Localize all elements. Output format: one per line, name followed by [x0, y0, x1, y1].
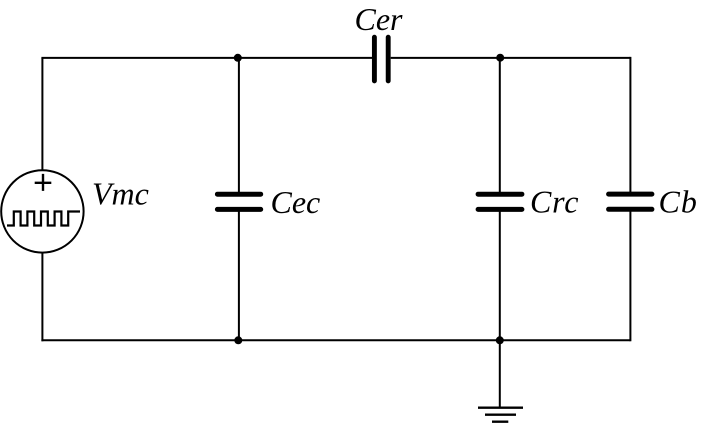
wire bottom horizontal [41, 339, 630, 341]
ground symbol [478, 407, 523, 409]
voltage source Vmc circle [1, 170, 83, 252]
wire Crc lower branch [499, 212, 501, 341]
svg-text:Cer: Cer [355, 1, 404, 37]
Vmc square wave [7, 212, 80, 226]
Vmc plus sign [35, 174, 52, 191]
wire right vertical upper (to Cb) [629, 57, 631, 192]
wire left vertical lower [41, 253, 43, 341]
svg-text:Cb: Cb [659, 184, 698, 220]
node junction dot Crc top [496, 54, 504, 62]
wire Cec lower branch [238, 212, 240, 341]
svg-text:Crc: Crc [530, 184, 579, 220]
wire Cec upper branch [238, 58, 240, 192]
node junction dot Cec bottom [234, 336, 242, 344]
capacitor Cer plates [374, 37, 388, 81]
wire Crc upper branch [499, 58, 501, 192]
wire top horizontal left segment [41, 57, 372, 59]
capacitor Cec plates [217, 194, 260, 209]
wire right vertical lower (from Cb) [629, 212, 631, 342]
wire ground stub [499, 340, 501, 407]
wire top horizontal right segment [391, 57, 631, 59]
wire top-left vertical [41, 58, 43, 170]
node junction dot ground [496, 336, 504, 344]
capacitor Crc plates [478, 194, 522, 209]
svg-text:Cec: Cec [271, 184, 321, 220]
capacitor Cb plates [609, 194, 652, 209]
svg-text:Vmc: Vmc [92, 176, 149, 212]
node junction dot Cec top [234, 54, 242, 62]
